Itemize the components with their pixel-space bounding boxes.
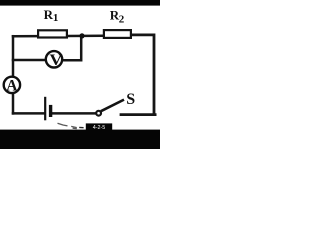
svg-text:V: V (49, 51, 63, 69)
svg-text:1: 1 (53, 12, 59, 24)
svg-text:2: 2 (119, 13, 125, 25)
svg-text:S: S (126, 91, 135, 108)
svg-text:A: A (6, 77, 18, 94)
svg-text:4-2-5: 4-2-5 (93, 125, 106, 131)
